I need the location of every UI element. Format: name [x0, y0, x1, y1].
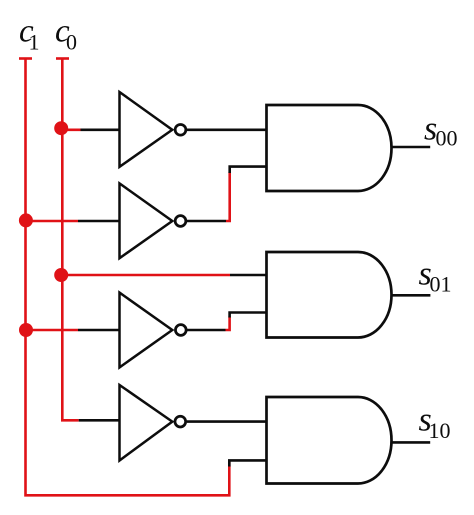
inverter U2 bubble	[175, 216, 186, 227]
wire red riser from inverter U3 output up to AND2 input 2	[226, 317, 230, 331]
wire black inverter U4 input segment	[79, 419, 120, 422]
wire black inverter U2 output segment	[187, 220, 226, 223]
wire red c0 to AND gate A2 input 1	[62, 274, 230, 277]
inverter U1 bubble	[175, 124, 186, 135]
wire c0 top cap	[56, 57, 69, 60]
wire black inverter U3 input segment	[78, 329, 120, 332]
inverter U4 bubble	[175, 416, 186, 427]
wire red c0 to inverter U1 input	[61, 129, 80, 132]
svg-text:01: 01	[430, 272, 452, 297]
junction dot on c0 at AND2 input 1	[54, 268, 68, 282]
AND gate A1 body	[267, 105, 392, 191]
inverter U3 bubble	[175, 325, 186, 336]
svg-text:1: 1	[29, 29, 40, 54]
AND gate A3 body	[267, 397, 392, 484]
wire red c1 to inverter U3 input	[26, 329, 79, 332]
wire black corner into AND1 input 2	[230, 167, 267, 173]
wire black AND3 output	[391, 441, 431, 444]
inverter U3 triangle	[120, 293, 173, 368]
svg-text:0: 0	[66, 29, 77, 54]
wire red riser upper part to AND3 input 2 corner	[228, 460, 231, 466]
AND gate A2 body	[267, 252, 392, 338]
junction dot on c1 at inverter U2 input	[19, 213, 33, 227]
junction dot on c1 at inverter U3 input	[19, 323, 33, 337]
wire black inverter U4 output to AND3 input 1	[187, 420, 267, 423]
svg-text:00: 00	[436, 126, 458, 151]
wire black corner into AND2 input 2	[230, 313, 267, 318]
wire black AND2 output	[391, 294, 431, 297]
wire black AND1 output	[391, 146, 431, 149]
inverter U4 triangle	[120, 385, 173, 461]
wire black inverter U1 input segment	[81, 129, 120, 132]
wire red riser from inverter U2 output up to AND1 input 2	[226, 172, 230, 221]
wire c0 vertical rail + elbow to inverter U4 input	[62, 59, 78, 421]
wire black corner into AND3 input 2	[229, 460, 266, 466]
inverter U1 triangle	[120, 92, 173, 167]
junction dot on c0 at inverter U1 input	[54, 121, 68, 135]
wire black inverter U1 output to AND1 input 1	[187, 129, 267, 132]
wire black AND2 input 1 segment	[230, 274, 267, 277]
inverter U2 triangle	[120, 183, 173, 258]
wire c1 top cap	[19, 57, 32, 60]
wire c1 vertical rail + bottom rail + riser toward AND3 input 2	[26, 59, 230, 496]
wire black inverter U3 output segment	[187, 329, 226, 332]
wire red c1 to inverter U2 input	[26, 220, 79, 223]
wire black inverter U2 input segment	[78, 220, 120, 223]
svg-text:10: 10	[429, 418, 451, 443]
